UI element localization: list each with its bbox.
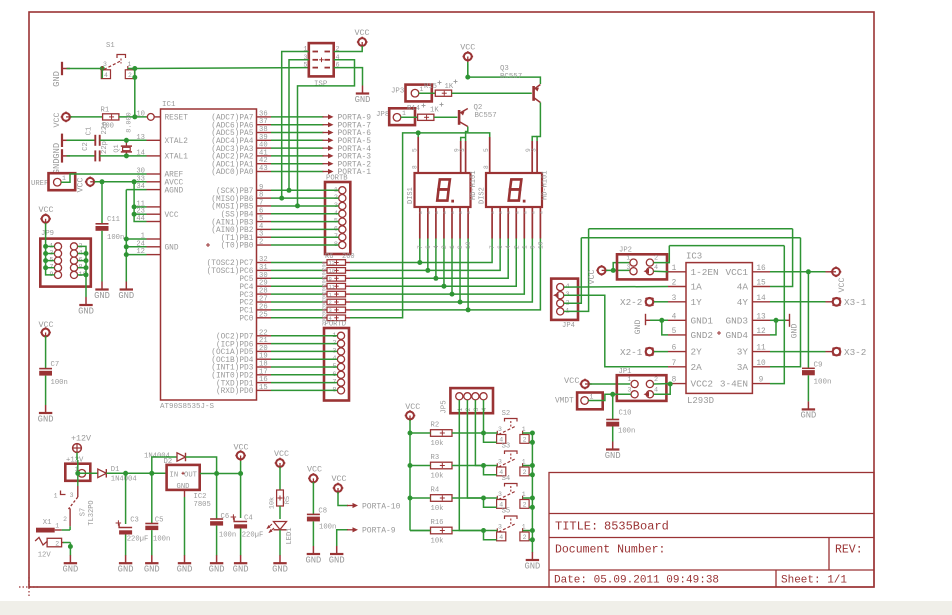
ground symbol left of S1	[52, 62, 70, 87]
display DIS2 HD-H101	[479, 137, 550, 249]
svg-text:1: 1	[62, 175, 66, 182]
svg-text:PC1: PC1	[239, 308, 253, 316]
wire ISP pin1 to PB6	[279, 52, 309, 201]
svg-text:VCC: VCC	[76, 177, 86, 192]
svg-text:18: 18	[259, 361, 268, 369]
svg-text:2: 2	[523, 437, 527, 444]
svg-text:X3-2: X3-2	[844, 347, 866, 358]
svg-text:PORTA-9: PORTA-9	[362, 527, 396, 536]
svg-text:9: 9	[457, 245, 464, 249]
wire X1 sleeve to GND	[63, 543, 73, 556]
svg-text:100n: 100n	[319, 524, 336, 532]
wire XTAL1	[124, 153, 147, 158]
svg-text:GND: GND	[605, 451, 621, 461]
connector JP9	[40, 230, 91, 287]
supply VCC at JP9	[38, 205, 53, 225]
svg-text:ISP: ISP	[314, 81, 328, 89]
svg-text:2: 2	[55, 541, 59, 548]
svg-text:8: 8	[412, 165, 419, 169]
svg-text:3: 3	[498, 458, 502, 465]
resistor R2 10k	[410, 422, 486, 449]
svg-text:IN: IN	[170, 472, 179, 480]
svg-text:UREF: UREF	[31, 180, 48, 188]
svg-text:GND3: GND3	[725, 315, 748, 326]
svg-text:2: 2	[523, 502, 527, 509]
svg-text:2: 2	[654, 376, 658, 384]
svg-text:2: 2	[128, 72, 132, 79]
supply VCC at PORTA-10 flag	[331, 474, 346, 494]
connector X2-1	[620, 347, 668, 358]
resistor R15 1K	[424, 80, 458, 97]
svg-text:7: 7	[417, 245, 424, 249]
svg-text:5: 5	[672, 328, 677, 336]
svg-text:R14: R14	[407, 105, 420, 113]
svg-text:(ADC7)PA7: (ADC7)PA7	[211, 115, 253, 123]
svg-text:GND: GND	[355, 95, 371, 105]
ground symbol at C2	[52, 149, 70, 174]
wire VCC rail to pullup resistors	[408, 420, 431, 531]
svg-text:7: 7	[489, 245, 496, 249]
svg-text:9: 9	[529, 245, 536, 249]
svg-text:X3-1: X3-1	[844, 297, 867, 308]
svg-text:15: 15	[259, 384, 268, 392]
wire XTAL2	[124, 138, 147, 143]
wire VCC to PORTA-10 flag	[338, 492, 348, 506]
svg-text:VCC2: VCC2	[691, 379, 714, 390]
wire +12V to node	[75, 452, 98, 475]
svg-text:RESET: RESET	[165, 115, 189, 123]
svg-text:14: 14	[756, 295, 766, 303]
transistor Q2 BC557	[459, 104, 497, 127]
wire VCC to JP1 pin1	[590, 383, 631, 385]
svg-text:6: 6	[259, 207, 263, 215]
svg-text:1: 1	[457, 407, 464, 411]
svg-text:JP4: JP4	[562, 322, 575, 330]
svg-text:GND: GND	[209, 565, 225, 575]
svg-text:2: 2	[63, 516, 67, 523]
svg-text:13: 13	[756, 313, 766, 321]
svg-text:C8: C8	[318, 508, 327, 516]
supply VCC after regulator	[233, 443, 248, 462]
ground symbol below C8	[305, 546, 321, 565]
ground symbol below C11	[94, 282, 110, 301]
capacitor C2 22p	[67, 141, 127, 161]
svg-text:3: 3	[103, 61, 107, 68]
svg-text:27: 27	[259, 296, 268, 304]
svg-text:JP8: JP8	[376, 111, 389, 119]
svg-text:10: 10	[756, 360, 766, 368]
wire Q2 collector to DIS1 commons	[461, 64, 468, 141]
wire GND to PORTA-9 flag	[337, 530, 348, 546]
svg-text:1: 1	[54, 493, 58, 500]
svg-text:4: 4	[505, 245, 512, 249]
wire IC3 VCC1 to VCC	[770, 269, 832, 274]
wires IC1 portD to PORTD header	[271, 336, 337, 391]
wire ISP pin3 to PB7	[287, 60, 309, 193]
wire JP2 pin2 riser line3	[654, 246, 785, 384]
svg-text:S2: S2	[502, 410, 511, 418]
svg-text:a: a	[443, 211, 448, 214]
svg-text:3: 3	[672, 295, 677, 303]
connector JP5	[441, 388, 494, 414]
resistor R5 10k vertical	[269, 467, 293, 519]
supply VCC above Q2	[460, 43, 475, 65]
svg-text:S1: S1	[106, 42, 115, 50]
IC1 left pins	[136, 110, 188, 256]
svg-text:1A: 1A	[691, 282, 703, 293]
svg-text:41: 41	[259, 149, 268, 157]
svg-text:IC2: IC2	[194, 493, 207, 501]
svg-text:HD-H101: HD-H101	[542, 171, 550, 200]
crystal Q1 8.000	[113, 112, 133, 156]
capacitor C10 100n	[606, 394, 635, 441]
wire ISP pin2 to VCC	[334, 46, 363, 52]
wires around switch S4	[484, 496, 535, 510]
document number text	[555, 544, 863, 557]
svg-text:TITLE:: TITLE:	[555, 520, 598, 534]
svg-text:10k: 10k	[431, 538, 444, 546]
wires IC1 portB to PORTB header	[271, 190, 339, 245]
ground symbol below ISP	[355, 86, 371, 105]
svg-text:30: 30	[259, 272, 268, 280]
svg-text:8.000: 8.000	[125, 112, 133, 132]
ground at IC3 GND3	[784, 314, 800, 339]
svg-text:S7: S7	[80, 508, 88, 516]
svg-text:(ADC0)PA0: (ADC0)PA0	[211, 169, 253, 177]
connector X2-2	[620, 297, 668, 308]
svg-text:4A: 4A	[737, 282, 749, 293]
svg-text:PC4: PC4	[239, 284, 253, 292]
svg-text:1: 1	[626, 255, 630, 263]
svg-text:12V: 12V	[38, 552, 52, 560]
svg-text:GND: GND	[52, 143, 62, 159]
svg-text:3: 3	[498, 426, 502, 433]
wire IC2 OUT to VCC	[200, 459, 243, 476]
svg-text:VCC: VCC	[165, 212, 179, 220]
svg-text:JP3: JP3	[391, 88, 404, 96]
resistor R4 10k	[410, 487, 486, 514]
connector JP8	[376, 108, 418, 125]
svg-text:5: 5	[483, 148, 490, 152]
svg-text:8535Board: 8535Board	[604, 520, 669, 534]
capacitor C11 100n	[96, 182, 125, 282]
wire segment net PC rows to displays	[350, 130, 540, 317]
wire UREF to AREF	[61, 174, 147, 182]
svg-text:GND1: GND1	[691, 315, 714, 326]
svg-text:(MOSI)PB5: (MOSI)PB5	[211, 204, 253, 212]
capacitor C6 100n	[210, 474, 236, 556]
svg-text:5: 5	[259, 215, 263, 223]
svg-text:PC0: PC0	[239, 316, 253, 324]
svg-text:Q1: Q1	[113, 144, 121, 152]
net flags PORTA-9..PORTA-1	[271, 114, 371, 178]
ground symbol below C9	[800, 401, 816, 420]
LED LED1	[267, 522, 295, 556]
svg-text:37: 37	[259, 118, 268, 126]
transistor Q3 BC557	[500, 65, 540, 103]
svg-text:TL32PO: TL32PO	[88, 500, 96, 525]
capacitor C8 100n	[307, 482, 336, 546]
svg-text:1Y: 1Y	[691, 297, 703, 308]
diode D2 1N4004 bypass	[144, 453, 217, 474]
svg-text:GND: GND	[62, 565, 78, 575]
ground symbol below C5	[144, 555, 160, 574]
capacitor C4 220uF	[231, 474, 264, 556]
svg-text:2: 2	[259, 239, 263, 247]
svg-text:100n: 100n	[814, 379, 832, 387]
svg-text:PC5: PC5	[239, 276, 253, 284]
svg-text:100n: 100n	[219, 532, 236, 540]
svg-text:a: a	[467, 211, 472, 214]
svg-text:1: 1	[672, 265, 677, 273]
svg-text:AGND: AGND	[165, 187, 184, 195]
connector X3-1	[770, 297, 867, 308]
svg-text:4: 4	[104, 72, 108, 79]
resistor R10 200	[271, 291, 350, 302]
display DIS1 HD-H101	[407, 137, 478, 249]
svg-text:(OC1A)PD5: (OC1A)PD5	[211, 349, 253, 357]
svg-text:220µF: 220µF	[127, 536, 149, 544]
wires around switch S2	[484, 431, 535, 445]
svg-text:VCC: VCC	[837, 277, 847, 292]
svg-text:(OC2)PD7: (OC2)PD7	[216, 334, 254, 342]
svg-text:a: a	[499, 211, 504, 214]
resistor R16 10k	[410, 519, 486, 546]
svg-text:a: a	[515, 211, 520, 214]
wire JP4 pin4 to IC3 1A	[564, 286, 668, 289]
svg-text:2: 2	[329, 299, 332, 306]
connector PORTB	[325, 175, 350, 255]
svg-text:100n: 100n	[51, 379, 68, 387]
svg-text:(T1)PB1: (T1)PB1	[221, 235, 254, 243]
svg-text:GND: GND	[78, 306, 94, 316]
svg-text:7: 7	[259, 199, 263, 207]
svg-text:9: 9	[759, 377, 764, 385]
svg-text:GND: GND	[94, 291, 110, 301]
date text	[554, 575, 847, 587]
svg-text:XTAL1: XTAL1	[165, 154, 189, 162]
wires around switch S5	[484, 528, 535, 542]
wire X1 to D1	[82, 472, 98, 474]
svg-text:R5: R5	[284, 496, 292, 504]
svg-text:R4: R4	[431, 487, 440, 495]
svg-text:2: 2	[441, 245, 448, 249]
svg-text:GND2: GND2	[691, 330, 714, 341]
wire VMDT to JP1 pin3	[588, 392, 631, 401]
wire switch common rail to GND	[531, 433, 533, 553]
switch S5	[497, 508, 530, 542]
wire S1 pins to reset rail	[101, 66, 137, 119]
svg-text:L293D: L293D	[687, 396, 714, 406]
svg-text:AT90S8535J-S: AT90S8535J-S	[160, 403, 215, 411]
svg-text:GND: GND	[800, 411, 816, 421]
svg-text:(T0)PB0: (T0)PB0	[221, 243, 254, 251]
resistor R11 200	[271, 299, 350, 310]
svg-text:(ADC2)PA2: (ADC2)PA2	[211, 154, 253, 162]
svg-text:(SCK)PB7: (SCK)PB7	[216, 188, 254, 196]
svg-text:GND: GND	[38, 414, 54, 424]
svg-text:4: 4	[654, 386, 658, 394]
ground symbol below C10	[605, 442, 621, 461]
wire Q3 collector to DIS2 commons	[532, 103, 540, 142]
svg-text:IC3: IC3	[686, 252, 702, 262]
svg-text:(SS)PB4: (SS)PB4	[221, 211, 254, 219]
wire AVCC	[95, 179, 147, 184]
svg-text:1: 1	[55, 523, 59, 530]
svg-text:GND: GND	[52, 71, 62, 87]
svg-text:19: 19	[259, 353, 268, 361]
svg-text:VCC: VCC	[460, 43, 475, 53]
svg-text:GND: GND	[177, 483, 190, 491]
svg-text:4: 4	[336, 54, 340, 62]
svg-text:1: 1	[590, 394, 594, 401]
svg-text:10k: 10k	[269, 497, 277, 509]
wire VCC rail to IC1 VCC pins	[132, 182, 147, 222]
resistor R8 200	[271, 276, 350, 287]
wire R15 to Q3 base	[452, 92, 532, 94]
switch S2	[497, 410, 530, 444]
svg-text:11: 11	[756, 345, 766, 353]
wire bus line1 JP4-1 to IC3 4A	[589, 229, 793, 287]
svg-text:43: 43	[259, 165, 268, 173]
svg-text:10k: 10k	[431, 473, 444, 481]
wire JP9 right rail to GND	[78, 246, 89, 297]
svg-text:2: 2	[336, 46, 340, 54]
IC IC1 AT90S8535 outline	[160, 101, 257, 411]
svg-text:VCC: VCC	[354, 28, 369, 38]
svg-text:3: 3	[531, 148, 538, 152]
resistor R3 10k	[410, 454, 486, 481]
svg-text:42: 42	[259, 157, 268, 165]
supply VCC at JP5 rail	[405, 402, 421, 421]
svg-text:2: 2	[523, 469, 527, 476]
svg-text:(ADC5)PA5: (ADC5)PA5	[211, 130, 253, 138]
supply +12V symbol	[71, 434, 91, 453]
svg-text:PC2: PC2	[239, 300, 253, 308]
svg-text:a: a	[491, 211, 496, 214]
svg-text:VCC: VCC	[274, 449, 289, 459]
wire JP4 pin2 riser	[564, 238, 582, 303]
connector VMDT	[555, 393, 603, 410]
svg-text:JP5: JP5	[441, 400, 449, 413]
wire S7 to X1	[62, 526, 71, 530]
svg-text:BC557: BC557	[475, 112, 497, 120]
connector +12V	[65, 457, 90, 481]
resistor R6 200	[271, 260, 350, 271]
svg-text:5: 5	[412, 148, 419, 152]
svg-text:1: 1	[449, 245, 456, 249]
svg-text:4: 4	[499, 534, 503, 541]
wire ISP pin4 to PB5	[295, 60, 355, 209]
svg-text:2: 2	[523, 534, 527, 541]
wire IC2 GND down	[184, 490, 186, 556]
svg-text:100n: 100n	[153, 536, 170, 544]
svg-text:(TOSC2)PC7: (TOSC2)PC7	[207, 260, 254, 268]
svg-text:GND: GND	[634, 320, 643, 335]
svg-text:10k: 10k	[431, 440, 444, 448]
svg-text:39: 39	[259, 134, 268, 142]
svg-text:a: a	[539, 211, 544, 214]
ground symbol below LED1	[272, 555, 288, 574]
wire IC3 GND3 GND4	[770, 318, 786, 335]
svg-text:AREF: AREF	[165, 172, 184, 180]
svg-text:(ICP)PD6: (ICP)PD6	[216, 341, 254, 349]
svg-text:21: 21	[259, 337, 268, 345]
supply VCC at C7	[38, 320, 53, 338]
resistor R9 200	[271, 283, 350, 294]
svg-text:2Y: 2Y	[691, 347, 703, 358]
svg-text:X2-2: X2-2	[620, 297, 642, 308]
svg-text:GND: GND	[272, 565, 288, 575]
svg-text:S3: S3	[502, 443, 511, 451]
svg-text:Date: 05.09.2011 09:49:38: Date: 05.09.2011 09:49:38	[554, 575, 719, 587]
svg-text:3Y: 3Y	[737, 347, 749, 358]
svg-text:220µF: 220µF	[242, 532, 264, 540]
title block	[549, 473, 874, 588]
svg-text:R3: R3	[431, 454, 440, 462]
IC3 pins	[668, 265, 770, 390]
svg-text:3: 3	[498, 491, 502, 498]
svg-text:X2-1: X2-1	[620, 347, 643, 358]
svg-text:11: 11	[329, 283, 336, 290]
svg-text:Document Number:: Document Number:	[555, 544, 665, 557]
switch S3	[497, 443, 530, 477]
svg-text:GND: GND	[177, 565, 193, 575]
svg-text:HD-H101: HD-H101	[470, 171, 478, 200]
svg-text:(ADC6)PA6: (ADC6)PA6	[211, 122, 253, 130]
capacitor C1 22p	[67, 122, 127, 146]
svg-text:(ADC1)PA1: (ADC1)PA1	[211, 161, 253, 169]
net flag PORTA-10 bottom	[347, 502, 401, 511]
supply VCC for R1	[52, 112, 72, 128]
svg-text:C5: C5	[155, 517, 164, 525]
wire JP5 pins down to switch rows	[459, 400, 483, 531]
svg-text:DIS1: DIS1	[407, 187, 415, 204]
svg-text:10k: 10k	[431, 505, 444, 513]
ground symbol below C6	[209, 555, 225, 574]
svg-text:40: 40	[259, 142, 268, 150]
ground symbol below C3	[118, 555, 134, 574]
svg-text:3: 3	[259, 231, 263, 239]
svg-text:a: a	[507, 211, 512, 214]
svg-text:4: 4	[481, 407, 488, 411]
capacitor C9 100n	[802, 272, 832, 402]
IC IC2 7805	[167, 465, 211, 509]
svg-text:GND: GND	[233, 565, 249, 575]
svg-text:16: 16	[756, 265, 766, 273]
ground symbol below AGND rail	[118, 282, 134, 301]
svg-text:1: 1	[303, 46, 307, 54]
supply VCC at ISP	[354, 28, 369, 47]
svg-text:GND: GND	[329, 555, 345, 565]
connector JP4	[551, 279, 578, 330]
svg-text:1: 1	[521, 245, 528, 249]
svg-text:(ADC4)PA4: (ADC4)PA4	[211, 138, 253, 146]
switch S1	[101, 42, 134, 79]
svg-text:(INT0)PD2: (INT0)PD2	[211, 373, 253, 381]
svg-text:VCC: VCC	[331, 474, 346, 484]
connector UREF	[31, 173, 75, 190]
svg-text:GND: GND	[144, 565, 160, 575]
resistor R1 100	[101, 107, 119, 131]
svg-text:a: a	[459, 211, 464, 214]
svg-text:3: 3	[303, 54, 307, 62]
svg-text:(MISO)PB6: (MISO)PB6	[211, 196, 253, 204]
svg-text:3: 3	[473, 407, 480, 411]
svg-text:C7: C7	[51, 361, 60, 369]
svg-text:2: 2	[513, 245, 520, 249]
svg-text:7: 7	[672, 360, 677, 368]
